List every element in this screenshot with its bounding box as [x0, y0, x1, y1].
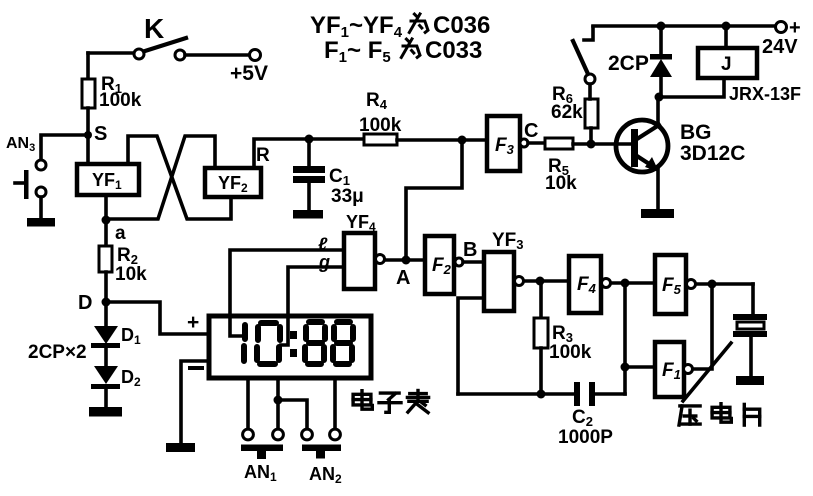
- wire watch terminal 4: [333, 378, 337, 429]
- svg-text:100k: 100k: [359, 115, 402, 136]
- wire F1 output up to F5 node: [693, 284, 712, 369]
- wire F3 output to R5: [528, 141, 545, 145]
- terminal +24V: [762, 17, 801, 58]
- wire AN3 to ground: [39, 197, 43, 218]
- svg-text:33μ: 33μ: [331, 186, 364, 207]
- node C1 junction: [305, 135, 314, 144]
- svg-text:100k: 100k: [549, 342, 592, 363]
- wire top to R1: [86, 53, 90, 79]
- ground under piezo: [736, 376, 764, 385]
- svg-text:62k: 62k: [551, 102, 583, 123]
- wire R5 to base junction: [573, 142, 591, 146]
- terminal +5V: [230, 50, 268, 86]
- resistor R4 100k: [359, 90, 402, 145]
- piezo element: [733, 314, 767, 376]
- wire R6 to junction: [589, 128, 593, 144]
- svg-text:24V: 24V: [762, 36, 798, 58]
- svg-text:3D12C: 3D12C: [680, 142, 745, 165]
- capacitor C2 1000P: [558, 382, 625, 448]
- wire S to YF1: [86, 135, 90, 163]
- wire F1 input: [625, 365, 655, 369]
- gate YF1: [77, 164, 139, 195]
- wire YF4 to node A: [385, 258, 406, 262]
- wire YF1 output to node a: [104, 196, 108, 219]
- button AN1: [241, 429, 283, 484]
- wire junction down to C2: [623, 283, 627, 394]
- label 2CPx2: [28, 342, 87, 363]
- diode 2CP: [608, 26, 672, 97]
- wire bottom rail to C2: [458, 392, 574, 396]
- svg-text:+: +: [187, 311, 199, 334]
- svg-text:ℓ: ℓ: [318, 234, 328, 254]
- wire B to YF3: [463, 260, 484, 264]
- switch K: [134, 13, 186, 60]
- wire base: [591, 142, 631, 146]
- svg-text:R: R: [256, 145, 270, 166]
- switch 2CP upper: [573, 27, 595, 99]
- wire switch to +5V terminal: [185, 53, 249, 57]
- wire watch terminal 2: [276, 378, 280, 429]
- svg-text:B: B: [463, 239, 477, 261]
- transistor BG 3D12C: [616, 97, 745, 209]
- svg-text:10k: 10k: [545, 173, 577, 194]
- svg-text:2CP×2: 2CP×2: [28, 342, 87, 363]
- svg-text:JRX-13F: JRX-13F: [729, 84, 801, 104]
- node YF3 out junction: [536, 277, 545, 286]
- svg-text:+5V: +5V: [230, 62, 268, 85]
- gate F1: [655, 342, 693, 397]
- svg-text:g: g: [318, 252, 330, 272]
- node F1 input junction: [621, 363, 630, 372]
- resistor R1 100k: [82, 74, 142, 111]
- display digit 8 first: [305, 322, 325, 364]
- wire main line to R4: [309, 137, 364, 141]
- gate YF4: [318, 212, 385, 289]
- node R wire from YF2 to main line: [254, 139, 309, 168]
- wire cross-coupling YF1 top to YF2 bottom: [128, 136, 231, 219]
- diode D1: [91, 302, 141, 348]
- node F5 out junction: [708, 280, 717, 289]
- svg-text:a: a: [115, 223, 126, 244]
- svg-text:C033: C033: [425, 37, 482, 64]
- display colon: [290, 331, 297, 357]
- svg-text:K: K: [144, 13, 164, 44]
- node rail-diode: [657, 22, 666, 31]
- gate F4: [569, 256, 611, 313]
- svg-text:F1~ F5: F1~ F5: [324, 37, 391, 66]
- node collector junction: [655, 93, 664, 102]
- wire YF3 output to F4: [524, 279, 568, 283]
- svg-text:10k: 10k: [115, 264, 147, 285]
- wire +5V rail to switch K: [88, 51, 134, 55]
- pushbutton AN3: [6, 135, 46, 199]
- wire +24V top rail: [593, 24, 776, 28]
- node junction before F3: [458, 136, 467, 145]
- wire R1 to node S: [86, 108, 90, 135]
- node base junction: [587, 140, 596, 149]
- wire A to F2: [406, 258, 424, 262]
- wire F5 output to piezo node: [696, 282, 753, 286]
- node rail-relay: [722, 22, 731, 31]
- svg-text:D: D: [78, 292, 92, 314]
- wire R2 to node D: [104, 272, 108, 302]
- diode D2: [91, 348, 141, 389]
- node A: [396, 256, 411, 290]
- wire collector junction to relay J: [659, 78, 724, 97]
- resistor R5 10k: [545, 138, 577, 194]
- wire YF3 feedback input: [458, 298, 484, 394]
- display digit 8 second: [333, 322, 353, 364]
- label piezo: [679, 404, 760, 425]
- wire watch terminal 1: [246, 378, 250, 429]
- wire a to R2: [104, 220, 108, 246]
- wire branch to terminal 3: [278, 400, 307, 429]
- svg-text:S: S: [94, 123, 107, 145]
- wire S to pushbutton AN3: [41, 135, 88, 159]
- electronic watch box: [187, 311, 371, 378]
- wire F4 output to junction: [611, 281, 625, 285]
- display digit 0: [257, 323, 280, 364]
- node terminal branch: [274, 396, 283, 405]
- resistor R6 62k: [551, 84, 598, 128]
- wire D to watch plus: [106, 302, 208, 334]
- svg-text:A: A: [396, 267, 410, 289]
- ground under D2: [89, 407, 122, 417]
- label electronic watch: [353, 391, 429, 413]
- resistor R3 100k: [534, 281, 592, 394]
- header text: [310, 12, 490, 66]
- wire R4 to F3: [397, 138, 487, 142]
- button AN2: [302, 429, 342, 486]
- gate YF2: [205, 168, 261, 197]
- wire watch minus to ground: [181, 361, 209, 443]
- wire segment l from watch to YF4: [230, 250, 343, 336]
- node F4 out junction: [621, 279, 630, 288]
- display digit 1: [244, 325, 245, 361]
- ground under AN3: [27, 218, 55, 227]
- pointer line to piezo label: [683, 343, 731, 401]
- gate F5: [655, 255, 696, 314]
- svg-text:1000P: 1000P: [558, 427, 613, 448]
- wire junction to F5: [625, 281, 655, 285]
- gate YF3: [484, 230, 524, 311]
- svg-text:BG: BG: [680, 121, 712, 144]
- node S: [84, 123, 107, 145]
- node R3 bottom: [537, 390, 546, 399]
- svg-text:C: C: [524, 120, 538, 142]
- wire segment g from watch to YF4: [281, 267, 343, 345]
- capacitor C1 33u: [293, 139, 364, 210]
- gate F3: [487, 116, 538, 171]
- node D: [78, 292, 111, 314]
- relay J JRX-13F: [698, 26, 801, 104]
- node a: [102, 216, 127, 245]
- wire cross-coupling YF2 top to node a: [106, 136, 215, 219]
- svg-text:100k: 100k: [99, 90, 142, 111]
- svg-text:J: J: [721, 54, 732, 75]
- gate F2: [425, 236, 477, 294]
- ground under transistor: [641, 209, 674, 218]
- wire junction down to node A: [406, 140, 462, 258]
- wire piezo drop: [751, 284, 755, 314]
- resistor R2 10k: [99, 245, 147, 285]
- svg-text:C036: C036: [433, 12, 490, 39]
- ground under watch minus: [166, 443, 195, 452]
- wire D2 to ground: [104, 389, 108, 407]
- svg-text:2CP: 2CP: [608, 52, 649, 75]
- ground under C1: [293, 210, 323, 219]
